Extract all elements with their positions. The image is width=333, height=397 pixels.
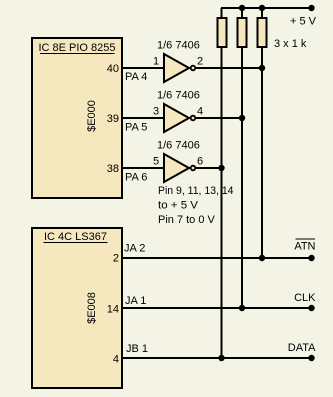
svg-text:PA 6: PA 6 [125, 172, 147, 184]
inverter U3 output bubble [191, 116, 196, 121]
svg-text:38: 38 [107, 163, 119, 175]
inverter U3 triangle [164, 104, 189, 132]
svg-text:CLK: CLK [294, 292, 316, 304]
svg-text:3 x 1 k: 3 x 1 k [274, 38, 307, 50]
svg-text:4: 4 [113, 354, 119, 366]
svg-text:JA 1: JA 1 [125, 295, 146, 307]
svg-text:PA 4: PA 4 [125, 71, 147, 83]
wire inverter 2 output to R2 column [196, 117, 243, 119]
inverter U3 1/6 7406 (pins 3-4) [153, 90, 203, 133]
junction rail-R2 [239, 5, 245, 11]
wire pin40 to inverter 1 input [122, 67, 164, 69]
svg-text:JA 2: JA 2 [124, 243, 145, 255]
svg-text:40: 40 [107, 63, 119, 75]
junction inverter1-R3 [259, 65, 265, 71]
svg-text:1/6 7406: 1/6 7406 [157, 140, 200, 152]
wire inverter 3 output to R1 column [196, 167, 222, 169]
inverter U2 triangle [164, 54, 189, 82]
svg-text:1: 1 [153, 56, 159, 68]
node DATA terminal [308, 355, 314, 361]
inverter U4 output bubble [191, 166, 196, 171]
svg-text:6: 6 [197, 156, 203, 168]
wire R3 column [261, 8, 263, 258]
IC U5 LS367 body [32, 228, 122, 388]
wire pin38 to inverter 3 input [122, 167, 164, 169]
svg-text:2: 2 [197, 56, 203, 68]
node ATN terminal [308, 255, 314, 261]
svg-text:DATA: DATA [288, 342, 316, 354]
inverter U2 1/6 7406 (pins 1-2) [153, 40, 203, 83]
svg-text:39: 39 [107, 113, 119, 125]
wire JA1 to CLK [122, 307, 312, 309]
svg-text:$E008: $E008 [86, 292, 98, 324]
svg-text:1/6 7406: 1/6 7406 [157, 40, 200, 52]
svg-text:+ 5 V: + 5 V [290, 16, 317, 28]
junction inverter3-R1 [218, 165, 224, 171]
svg-text:1/6 7406: 1/6 7406 [157, 90, 200, 102]
junction inverter2-R2 [239, 115, 245, 121]
svg-text:IC 8E PIO 8255: IC 8E PIO 8255 [38, 42, 115, 54]
svg-text:$E000: $E000 [86, 100, 98, 132]
wire JB1 to DATA [122, 357, 312, 359]
svg-text:14: 14 [107, 304, 119, 316]
svg-text:3: 3 [153, 106, 159, 118]
svg-text:PA 5: PA 5 [125, 122, 147, 134]
wire pin39 to inverter 2 input [122, 117, 164, 119]
resistor R3 [258, 18, 267, 47]
junction DATA-R1 [218, 355, 224, 361]
svg-text:5: 5 [153, 156, 159, 168]
svg-text:JB 1: JB 1 [126, 343, 148, 355]
svg-text:ATN: ATN [294, 241, 315, 253]
inverter U2 output bubble [191, 66, 196, 71]
wire R1 column [221, 8, 223, 358]
resistor R1 [218, 18, 227, 47]
node CLK terminal [308, 305, 314, 311]
wire inverter 1 output to R3 column [196, 67, 263, 69]
svg-text:2: 2 [113, 253, 119, 265]
IC U1 8255 body [32, 38, 122, 198]
inverter U4 triangle [164, 154, 189, 182]
svg-text:IC 4C LS367: IC 4C LS367 [44, 231, 107, 243]
resistor R2 [238, 18, 247, 47]
wire JA2 to ATN [122, 257, 312, 259]
svg-text:to + 5 V: to + 5 V [158, 200, 199, 212]
inverter U4 1/6 7406 (pins 5-6) [153, 140, 203, 183]
svg-text:Pin 7 to 0 V: Pin 7 to 0 V [158, 214, 216, 226]
junction rail-R3 [259, 5, 265, 11]
wire +5V rail [221, 7, 312, 9]
svg-text:4: 4 [197, 106, 203, 118]
wire R2 column [241, 8, 243, 308]
+5V supply [308, 5, 314, 11]
junction CLK-R2 [239, 305, 245, 311]
junction ATN-R3 [259, 255, 265, 261]
